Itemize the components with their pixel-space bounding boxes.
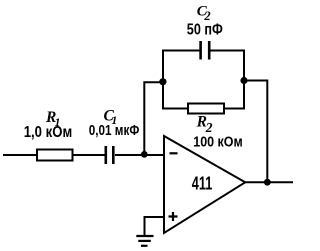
svg-text:1,0 кОм: 1,0 кОм — [24, 124, 72, 141]
svg-text:50 пФ: 50 пФ — [187, 21, 223, 38]
svg-text:100 кОм: 100 кОм — [193, 133, 242, 150]
svg-text:0,01 мкФ: 0,01 мкФ — [89, 123, 140, 139]
svg-text:411: 411 — [192, 174, 213, 194]
